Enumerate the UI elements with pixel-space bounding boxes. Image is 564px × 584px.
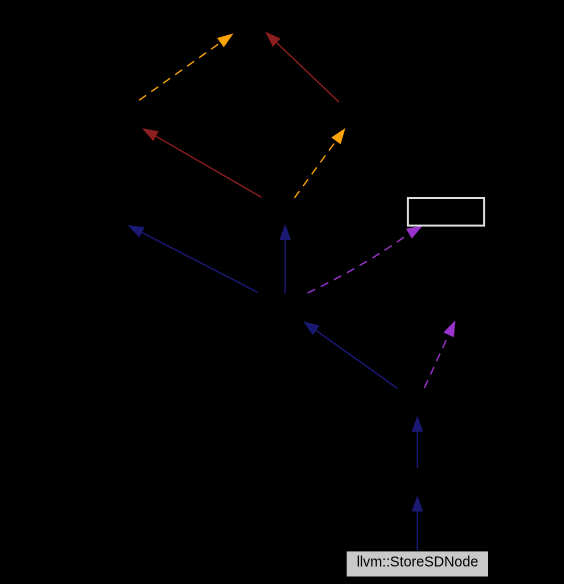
node: llvm::StoreSDNode (grey filled box with label) xyxy=(346,551,488,577)
wire: navy solid vertical inheritance edge K (from llvm::StoreSDNode box) xyxy=(412,496,424,551)
wire: purple dashed usage edge G (mem node up-right to empty box) xyxy=(308,226,423,293)
wire: dark-red solid inheritance edge C (center node up-left) xyxy=(142,128,261,197)
wire: navy solid vertical inheritance edge J xyxy=(412,416,424,468)
wire: purple dashed usage edge I (lower node up-right) xyxy=(424,320,455,388)
wire: navy solid vertical inheritance edge F (mem node up to center node) xyxy=(279,224,291,293)
wire: dark-red solid inheritance edge B (mid-right node up to top node) xyxy=(265,32,339,103)
svg-text:llvm::StoreSDNode: llvm::StoreSDNode xyxy=(357,555,479,571)
wire: navy solid inheritance edge H (lower node up-left to mem node) xyxy=(303,321,397,388)
wire: orange dashed template-relation edge D (center node up-right) xyxy=(294,128,345,198)
wire: orange dashed template-relation edge A (lower-left node to top node) xyxy=(139,33,233,100)
node: empty white-bordered box (invisible label node) xyxy=(408,198,484,226)
wire: navy solid inheritance edge E (mem node up-left) xyxy=(128,225,258,292)
